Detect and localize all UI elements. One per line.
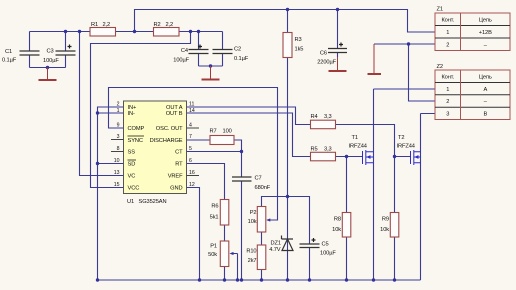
svg-text:8: 8 [117, 146, 120, 152]
svg-text:1: 1 [446, 87, 449, 93]
svg-text:680nF: 680nF [255, 185, 271, 191]
svg-text:COMP: COMP [128, 126, 145, 132]
svg-text:Конт.: Конт. [441, 18, 454, 24]
svg-text:A: A [483, 87, 487, 93]
svg-text:7: 7 [189, 134, 192, 140]
svg-text:3: 3 [446, 112, 449, 118]
svg-text:0.1µF: 0.1µF [2, 58, 17, 64]
svg-text:IN-: IN- [128, 111, 135, 117]
svg-text:0.1µF: 0.1µF [234, 56, 249, 62]
svg-text:C1: C1 [5, 49, 12, 55]
svg-text:SYNC: SYNC [128, 138, 143, 144]
svg-text:OSC. OUT: OSC. OUT [156, 126, 183, 132]
svg-text:Конт.: Конт. [441, 75, 454, 81]
svg-text:14: 14 [189, 108, 195, 114]
svg-text:2200µF: 2200µF [317, 60, 336, 66]
svg-text:Цепь: Цепь [479, 18, 492, 24]
svg-text:P2: P2 [250, 210, 257, 216]
svg-text:10k: 10k [380, 227, 389, 233]
svg-text:10k: 10k [332, 227, 341, 233]
svg-text:Цепь: Цепь [479, 75, 492, 81]
svg-text:R9: R9 [382, 217, 389, 223]
svg-text:2k7: 2k7 [248, 258, 257, 264]
svg-text:2,2: 2,2 [103, 22, 111, 28]
svg-text:RT: RT [175, 162, 183, 168]
svg-text:SS: SS [128, 150, 136, 156]
svg-text:9: 9 [117, 123, 120, 129]
svg-text:100µF: 100µF [173, 58, 189, 64]
svg-text:Z1: Z1 [437, 7, 443, 13]
svg-text:C4: C4 [181, 48, 188, 54]
svg-text:100µF: 100µF [43, 58, 59, 64]
svg-text:15: 15 [114, 182, 120, 188]
svg-text:50k: 50k [208, 252, 217, 258]
svg-text:13: 13 [114, 170, 120, 176]
svg-text:3,3: 3,3 [324, 114, 332, 120]
svg-text:CT: CT [175, 150, 183, 156]
svg-text:C3: C3 [47, 49, 54, 55]
svg-text:VC: VC [128, 174, 136, 180]
svg-text:VREF: VREF [168, 174, 183, 180]
svg-text:R7: R7 [210, 129, 217, 135]
svg-text:2: 2 [117, 102, 120, 108]
svg-text:5: 5 [189, 146, 192, 152]
svg-text:R3: R3 [295, 37, 302, 43]
svg-text:11: 11 [189, 102, 194, 108]
svg-text:R4: R4 [311, 114, 318, 120]
svg-text:12: 12 [189, 182, 195, 188]
svg-text:U1 SG3525AN: U1 SG3525AN [127, 199, 166, 205]
svg-text:3,3: 3,3 [324, 146, 332, 152]
svg-text:1k5: 1k5 [295, 47, 304, 53]
svg-text:10k: 10k [248, 219, 257, 225]
svg-text:4.7V: 4.7V [269, 247, 281, 253]
svg-text:R1: R1 [91, 22, 98, 28]
svg-text:5k1: 5k1 [210, 215, 219, 221]
svg-text:R10: R10 [246, 249, 256, 255]
svg-text:R5: R5 [311, 146, 318, 152]
svg-text:T1: T1 [352, 135, 358, 141]
svg-text:R2: R2 [154, 22, 161, 28]
svg-text:100: 100 [223, 129, 232, 135]
svg-text:SD: SD [128, 162, 136, 168]
svg-text:P1: P1 [210, 244, 217, 250]
svg-text:1: 1 [446, 30, 449, 36]
svg-text:IRFZ44: IRFZ44 [349, 144, 367, 150]
svg-text:GND: GND [170, 186, 182, 192]
svg-text:C2: C2 [234, 47, 241, 53]
svg-text:16: 16 [189, 170, 195, 176]
svg-text:VCC: VCC [128, 186, 140, 192]
svg-text:1: 1 [117, 108, 120, 114]
svg-text:R6: R6 [211, 204, 218, 210]
svg-text:10: 10 [114, 158, 120, 164]
svg-text:B: B [483, 112, 487, 118]
svg-text:IRFZ44: IRFZ44 [397, 144, 415, 150]
svg-text:3: 3 [117, 134, 120, 140]
svg-text:T2: T2 [398, 135, 404, 141]
svg-text:Z2: Z2 [437, 64, 443, 70]
svg-text:OUT B: OUT B [166, 111, 183, 117]
svg-text:100µF: 100µF [320, 251, 336, 257]
svg-text:DISCHARGE: DISCHARGE [150, 138, 183, 144]
svg-text:C5: C5 [322, 242, 329, 248]
svg-text:4: 4 [189, 123, 192, 129]
svg-text:+12В: +12В [479, 30, 492, 36]
svg-text:C6: C6 [320, 51, 327, 57]
svg-text:2,2: 2,2 [166, 22, 174, 28]
svg-text:2: 2 [446, 43, 449, 49]
svg-text:2: 2 [446, 99, 449, 105]
svg-text:R8: R8 [334, 217, 341, 223]
svg-text:C7: C7 [255, 176, 262, 182]
svg-text:DZ1: DZ1 [271, 241, 281, 247]
svg-text:6: 6 [189, 158, 192, 164]
